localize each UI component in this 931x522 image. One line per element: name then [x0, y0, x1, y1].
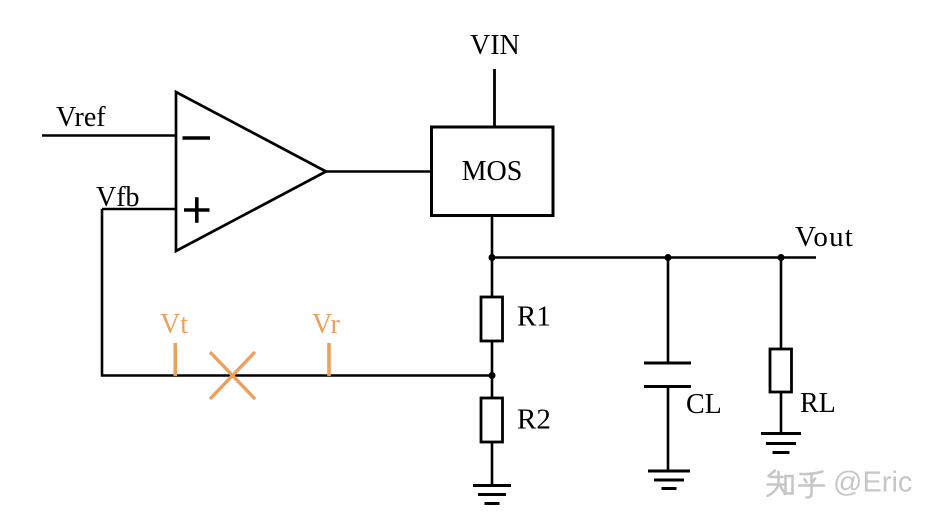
svg-text:CL: CL: [686, 389, 722, 420]
op-amp plus pin marker: [184, 197, 210, 223]
wire Vout to CL: [667, 258, 670, 364]
probe tick Vr: [327, 343, 331, 376]
node at CL tap: [665, 254, 672, 261]
wire Vref input: [42, 134, 176, 137]
svg-text:Vref: Vref: [56, 102, 106, 133]
svg-text:R1: R1: [517, 301, 551, 333]
resistor R2: [481, 398, 503, 442]
node at RL tap: [778, 254, 785, 261]
watermark zhihu logo glyph hu: [799, 472, 824, 498]
probe tick Vt: [174, 343, 178, 376]
svg-text:Vt: Vt: [160, 309, 188, 340]
svg-text:Vout: Vout: [795, 221, 854, 253]
op-amp U1: [176, 92, 326, 251]
svg-text:Vr: Vr: [312, 309, 341, 340]
node feedback tap: [489, 372, 496, 379]
resistor R1: [481, 297, 503, 341]
ground below RL: [761, 434, 801, 453]
node at MOS output: [489, 254, 496, 261]
wire MOS drain down: [491, 216, 494, 258]
wire CL to ground: [667, 387, 670, 472]
wire RL to ground: [780, 392, 783, 434]
break mark X on feedback wire: [210, 352, 255, 399]
op-amp minus pin marker: [183, 136, 211, 140]
svg-text:VIN: VIN: [470, 30, 520, 61]
wire VIN to MOS: [493, 69, 496, 127]
wire Vout to RL: [780, 258, 783, 350]
resistor RL: [770, 349, 792, 392]
watermark zhihu logo glyph zhi: [768, 471, 793, 497]
wire R1 to R2: [491, 341, 494, 398]
wire Vout rail: [492, 256, 816, 259]
svg-text:@Eric: @Eric: [833, 467, 912, 499]
wire R2 to ground: [491, 442, 494, 486]
svg-text:RL: RL: [800, 388, 836, 419]
wire op-amp output to MOS: [326, 170, 432, 173]
capacitor CL: [644, 363, 691, 387]
svg-text:MOS: MOS: [462, 156, 523, 187]
MOS block: [432, 127, 554, 216]
ground below R2: [473, 486, 511, 504]
wire feedback (Vfb loop): [102, 209, 492, 376]
wire Vfb input: [102, 208, 176, 211]
svg-text:R2: R2: [517, 404, 551, 436]
wire Vout to R1: [491, 258, 494, 298]
ground below CL: [648, 471, 690, 489]
